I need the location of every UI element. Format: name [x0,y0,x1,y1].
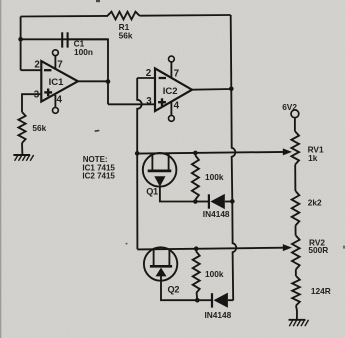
svg-text:6V2: 6V2 [282,102,297,112]
transistor Q2 [144,247,177,280]
IC1 pin 7 terminal [54,55,56,69]
resistor 100k (Q1) [192,156,199,200]
node 100k bottom (Q2 source row) [195,298,200,303]
IC2 output wire [192,88,231,91]
IC1 pin 3 wire [22,94,41,112]
ground (left) [13,154,30,156]
svg-text:500R: 500R [308,245,328,255]
svg-text:2k2: 2k2 [308,198,322,208]
potentiometer RV1 [291,132,299,165]
wire Q2 drain row [137,248,284,250]
node D1 anode on rail [230,199,235,204]
IC1 output wire [78,80,108,82]
ground (right) [289,319,306,321]
svg-text:1k: 1k [308,153,318,163]
wire top to R1 [21,15,108,18]
wire IC1 output to IC2 pin3 [108,103,155,105]
IC2 pin 7 terminal [170,62,172,78]
wire RV1 to 2k2 [294,165,296,192]
svg-text:Q1: Q1 [146,186,158,196]
svg-text:56k: 56k [119,31,133,41]
svg-text:Q2: Q2 [168,284,180,294]
wiper arrow RV1 [283,148,292,155]
wire 124R to ground [296,306,297,320]
capacitor C1 [61,32,63,47]
diode D2 IN4148 [197,299,213,301]
IC2 pin 4 terminal [170,102,172,116]
resistor 100k (Q2) [193,252,200,294]
node 100k top (Q1 row) [193,151,198,156]
wire Q1 drain row [137,152,284,154]
svg-text:IN4148: IN4148 [205,310,232,320]
node IC2 output on rail [229,87,234,92]
svg-text:IC2: IC2 [163,86,178,97]
wiper arrow RV2 [283,244,292,251]
svg-text:2: 2 [34,60,40,71]
diode D1 IN4148 [195,201,210,203]
wire RV2 to 124R [295,270,297,277]
op-amp IC2 [155,68,192,111]
node A (C1/feedback junction) [18,37,23,42]
IC1 pin 4 terminal [54,95,56,108]
wire right rail vertical [231,15,237,300]
svg-text:IN4148: IN4148 [203,209,230,219]
wire 2k2 to RV2 [295,226,297,236]
node IC1 output [106,79,111,84]
svg-text:4: 4 [57,94,63,105]
paper edge shadow left [0,0,1,338]
svg-text:2: 2 [146,68,152,79]
svg-text:100n: 100n [74,47,93,57]
resistor 56k [18,112,25,143]
potentiometer RV2 [292,236,300,270]
svg-text:7: 7 [57,59,63,70]
op-amp IC1 [41,61,78,102]
node Q1 row left [135,151,140,156]
wire R1 to right rail [140,14,231,17]
svg-text:100k: 100k [205,172,224,182]
svg-text:3: 3 [146,96,152,107]
transistor Q1 [143,153,177,187]
node 100k top (Q2 row) [194,246,199,251]
svg-text:IC1: IC1 [49,77,65,88]
IC1 pin 2 wire [21,69,42,71]
terminal 6V2 [291,110,299,118]
scan artifacts [94,130,99,132]
svg-text:56k: 56k [32,123,46,133]
IC2 pin 2 wire [137,77,155,79]
node 100k bottom (Q1 source row) [193,199,198,204]
resistor 2k2 [292,191,300,226]
svg-text:4: 4 [174,100,180,111]
wire top-left vertical (feedback to pin2) [21,17,108,40]
wire C1 right lead to IC1 output node [68,39,108,104]
svg-text:IC2 7415: IC2 7415 [82,172,115,181]
resistor R1 [108,12,140,20]
svg-text:124R: 124R [311,286,331,296]
svg-text:7: 7 [174,69,180,80]
svg-text:100k: 100k [205,269,224,279]
resistor 124R [292,276,300,306]
wire IC2 pin2 down to Q rows [137,78,142,249]
svg-text:3: 3 [34,90,40,101]
